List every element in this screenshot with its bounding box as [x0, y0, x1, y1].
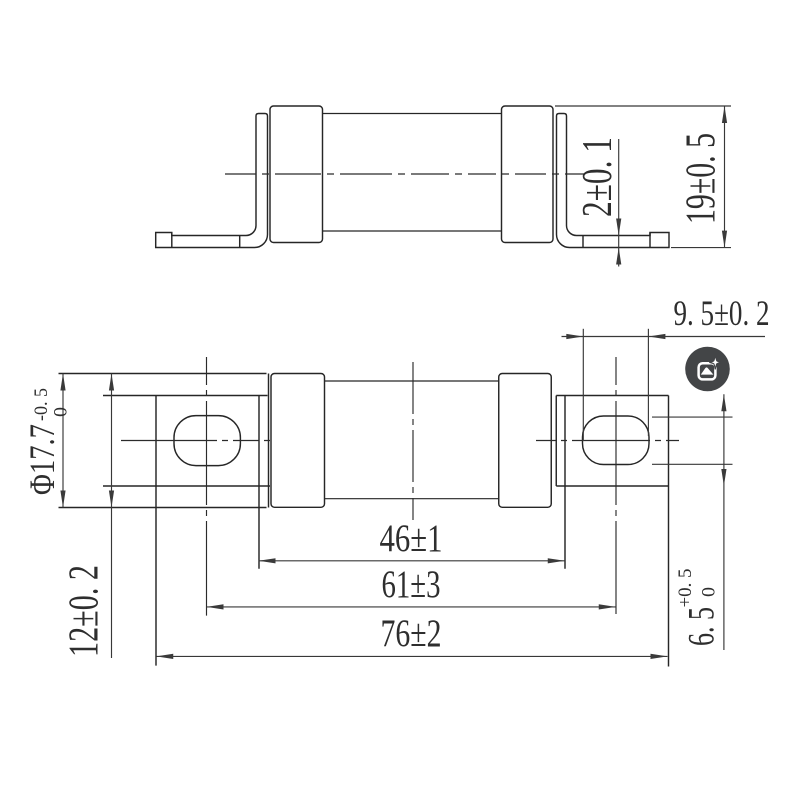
dimension 61±3 (hole centers distance)	[207, 604, 616, 609]
dimension line	[724, 106, 726, 248]
fuse mid-length centerline	[412, 362, 414, 520]
dimension 6.5 +0.5/0 (slot width)	[652, 394, 733, 650]
svg-text:0: 0	[51, 407, 72, 417]
dimension Φ17.7 0/-0.5 (cap diameter)	[60, 374, 65, 508]
right hole horizontal centerline	[536, 440, 679, 442]
extension line from foot bottom	[671, 247, 731, 249]
left foot right edge / 46 extension	[258, 396, 260, 569]
extension from slot bottom edge	[652, 463, 733, 465]
right end cap	[502, 106, 554, 243]
svg-text:9. 5±0. 2: 9. 5±0. 2	[674, 293, 770, 333]
right foot left edge	[555, 396, 557, 487]
left bracket clamp bottom edge	[59, 507, 267, 509]
svg-text:61±3: 61±3	[382, 563, 441, 606]
left hole vertical centerline / 61 extension	[206, 357, 208, 616]
svg-text:19±0. 5: 19±0. 5	[679, 133, 725, 224]
right foot hole tick 1	[582, 236, 584, 248]
dimension 2±0.1 (bracket thickness)	[616, 139, 621, 267]
left foot bottom edge	[103, 485, 270, 487]
image-search icon button	[685, 347, 730, 392]
extension from slot left edge	[582, 329, 584, 441]
fuse tube bottom line	[323, 230, 502, 232]
svg-text:6. 5: 6. 5	[682, 607, 723, 646]
right foot hole tick 2	[649, 233, 651, 248]
svg-text:Φ17.7: Φ17.7	[22, 424, 62, 495]
left foot hole tick 2	[239, 236, 241, 248]
dimension 9.5±0.2 (slot length)	[562, 329, 766, 441]
right slot hole	[583, 416, 650, 465]
right bracket L-profile	[557, 114, 670, 248]
fuse tube plan bottom edge	[325, 498, 499, 500]
left slot hole	[174, 416, 240, 466]
right foot bottom edge	[556, 485, 668, 487]
svg-text:0: 0	[699, 587, 720, 597]
svg-text:12±0. 2: 12±0. 2	[62, 565, 108, 657]
extension from slot right edge	[647, 329, 649, 436]
left foot left edge / 76 extension	[155, 396, 157, 666]
left end cap	[270, 106, 323, 243]
left foot hole tick 1	[171, 233, 173, 248]
extension from slot top edge	[652, 416, 733, 418]
svg-text:76±2: 76±2	[381, 612, 442, 655]
extension line from cap top	[555, 105, 731, 107]
centerlines of plan view	[121, 357, 679, 616]
svg-text:46±1: 46±1	[380, 517, 443, 560]
left hole horizontal centerline	[121, 440, 270, 442]
fuse tube top line	[323, 113, 502, 115]
dimension line	[723, 394, 725, 650]
left bracket clamp top edge	[59, 373, 267, 375]
right foot inner edge / 46 extension	[564, 396, 566, 569]
left bracket clamp right edge	[268, 374, 270, 508]
right end cap plan	[499, 374, 552, 508]
svg-text:2±0. 1: 2±0. 1	[575, 137, 621, 217]
right foot top edge	[556, 395, 668, 397]
axis centerline of fuse, side view	[225, 173, 585, 175]
dimension 46±1 (between feet inner edges)	[259, 558, 565, 563]
dimension 76±2 (overall length)	[156, 654, 667, 659]
left bracket L-profile	[156, 114, 268, 248]
dimension 19±0.5 (overall height)	[555, 106, 731, 248]
right hole vertical centerline / 61 extension	[615, 357, 617, 614]
svg-text:-0. 5: -0. 5	[31, 388, 52, 421]
right foot right edge / 76 extension	[668, 396, 670, 667]
dimension 12±0.2 (foot width)	[109, 374, 114, 659]
left foot top edge	[103, 395, 268, 397]
left end cap plan	[271, 374, 325, 508]
fuse tube plan top edge	[325, 380, 499, 382]
svg-text:+0. 5: +0. 5	[675, 569, 696, 608]
